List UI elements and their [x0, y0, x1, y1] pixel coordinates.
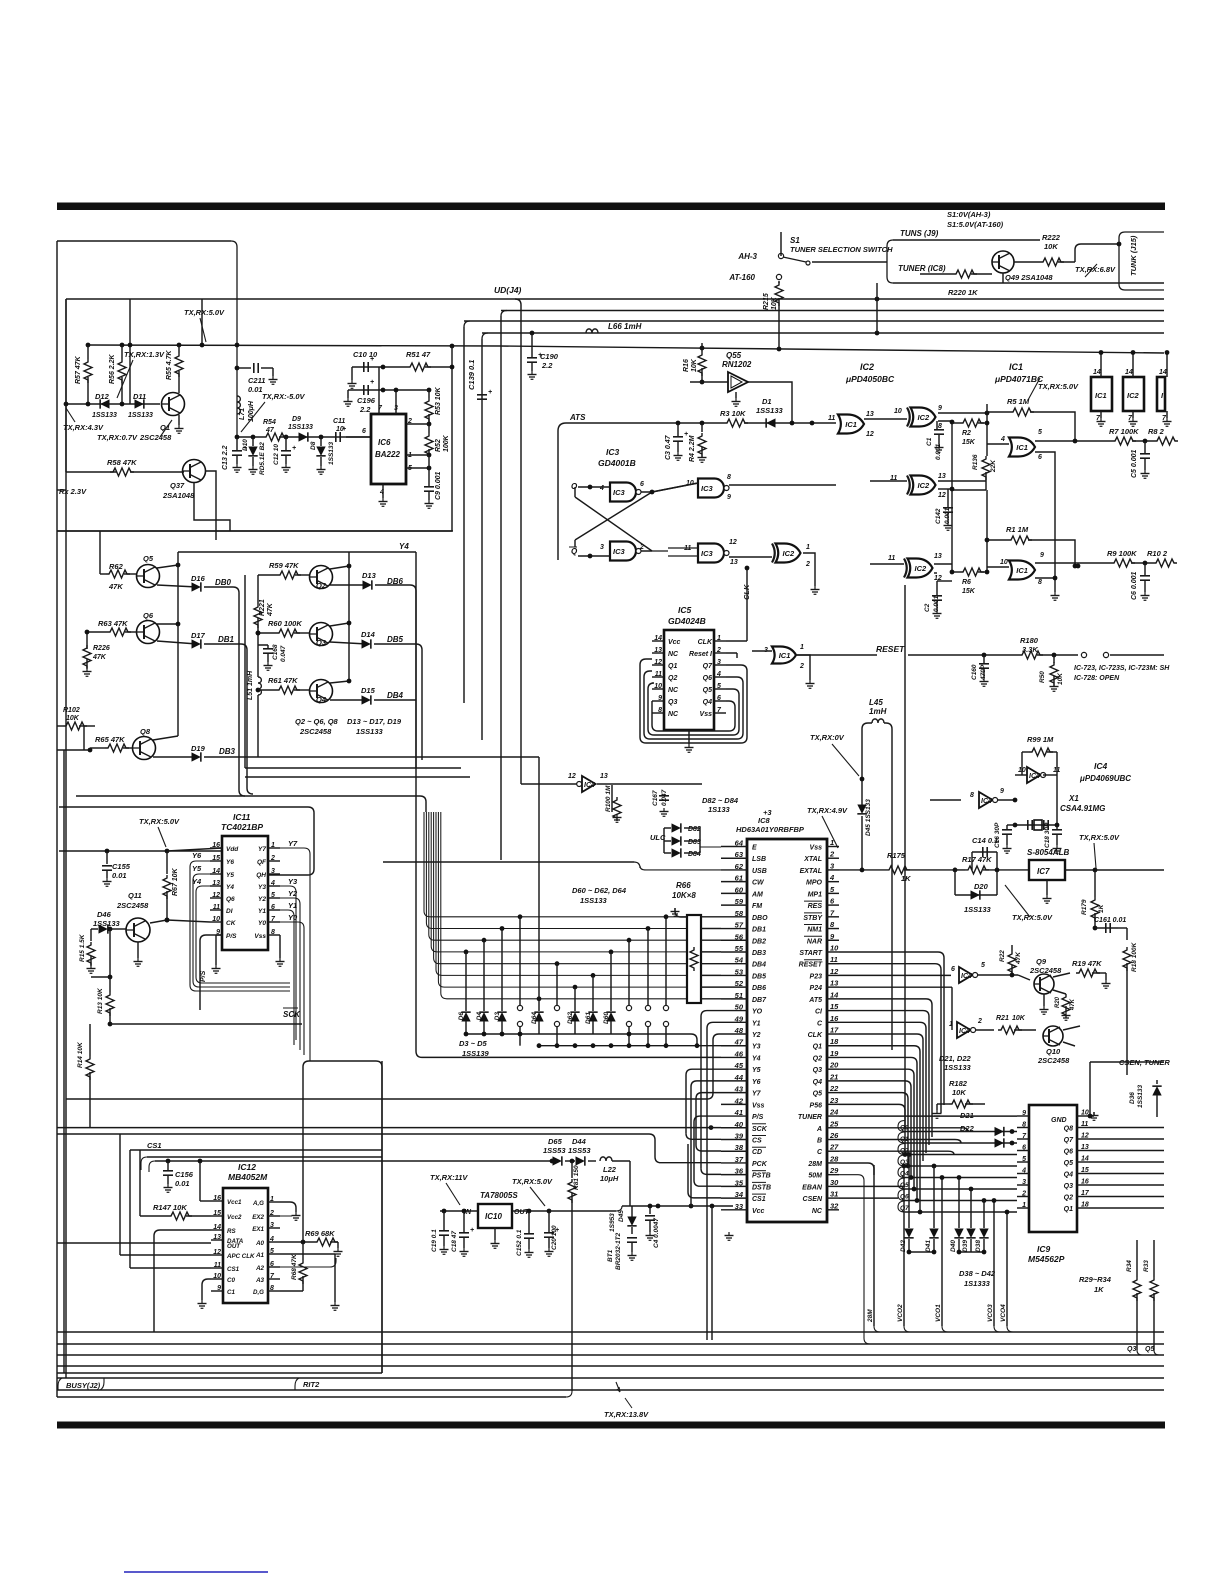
svg-text:Y6: Y6 — [226, 859, 234, 866]
svg-text:Q5: Q5 — [143, 554, 154, 563]
svg-text:49: 49 — [734, 1014, 744, 1023]
svg-text:DB2: DB2 — [752, 938, 766, 945]
svg-text:16: 16 — [830, 1014, 839, 1023]
svg-text:41: 41 — [734, 1108, 743, 1117]
svg-text:Q9: Q9 — [1036, 957, 1047, 966]
svg-text:1SS133: 1SS133 — [964, 905, 992, 914]
svg-text:CSA4.91MG: CSA4.91MG — [1060, 804, 1105, 813]
svg-text:12: 12 — [866, 431, 874, 438]
svg-text:A: A — [816, 1126, 822, 1133]
svg-text:USB: USB — [752, 868, 767, 875]
svg-text:D14: D14 — [361, 630, 376, 639]
svg-text:13: 13 — [730, 559, 738, 566]
svg-text:R180: R180 — [1020, 636, 1039, 645]
svg-text:EX1: EX1 — [252, 1226, 264, 1233]
svg-text:Y2: Y2 — [258, 896, 266, 903]
svg-text:Y1: Y1 — [752, 1020, 761, 1027]
svg-text:DB1: DB1 — [218, 635, 235, 644]
svg-text:5: 5 — [1038, 429, 1042, 436]
svg-text:R13 10K: R13 10K — [97, 987, 104, 1014]
svg-text:10K: 10K — [952, 1088, 966, 1097]
svg-text:15K: 15K — [962, 439, 976, 446]
svg-text:IC2: IC2 — [783, 549, 796, 558]
svg-text:P23: P23 — [810, 973, 823, 980]
svg-text:R1 1M: R1 1M — [1006, 525, 1029, 534]
svg-text:47: 47 — [265, 427, 275, 434]
svg-text:R182: R182 — [949, 1079, 968, 1088]
svg-text:+: + — [370, 379, 374, 386]
svg-text:C12 10: C12 10 — [273, 444, 280, 465]
svg-text:13: 13 — [1081, 1144, 1089, 1151]
svg-text:Reset I: Reset I — [689, 651, 713, 658]
svg-text:0.001: 0.001 — [933, 595, 940, 612]
svg-text:IC2: IC2 — [918, 413, 931, 422]
svg-text:1: 1 — [949, 1021, 953, 1028]
svg-text:A,G: A,G — [252, 1200, 264, 1207]
svg-text:DB4: DB4 — [387, 691, 404, 700]
svg-text:RESET: RESET — [876, 644, 905, 654]
svg-text:IC1: IC1 — [1016, 443, 1028, 452]
svg-text:47K: 47K — [108, 582, 123, 591]
svg-text:R215: R215 — [763, 293, 770, 310]
svg-text:2: 2 — [829, 850, 835, 859]
svg-text:EBAN: EBAN — [802, 1184, 823, 1191]
svg-text:R136: R136 — [972, 454, 979, 470]
svg-text:IC2: IC2 — [1127, 391, 1140, 400]
svg-text:Q3: Q3 — [1064, 1183, 1073, 1190]
svg-text:0.047: 0.047 — [280, 645, 287, 662]
svg-text:TX,RX:0.7V: TX,RX:0.7V — [97, 433, 138, 442]
svg-text:D46: D46 — [97, 910, 112, 919]
svg-text:TX,RX:-5.0V: TX,RX:-5.0V — [262, 392, 306, 401]
svg-text:IC4: IC4 — [1094, 761, 1108, 771]
svg-text:14: 14 — [830, 990, 839, 999]
svg-text:0.001: 0.001 — [935, 443, 942, 460]
svg-text:P24: P24 — [810, 985, 823, 992]
svg-text:CS1: CS1 — [227, 1266, 240, 1273]
svg-text:D8: D8 — [310, 441, 317, 450]
svg-text:R67 10K: R67 10K — [172, 867, 179, 896]
svg-text:Y3: Y3 — [258, 884, 266, 891]
svg-text:D36: D36 — [1129, 1092, 1136, 1104]
svg-text:Q6: Q6 — [1064, 1149, 1073, 1156]
svg-text:Vss: Vss — [752, 1102, 765, 1109]
svg-text:0.047: 0.047 — [661, 789, 668, 806]
svg-text:D64: D64 — [531, 1012, 538, 1024]
svg-text:+: + — [292, 445, 296, 452]
svg-text:Rx 2.3V: Rx 2.3V — [59, 487, 87, 496]
svg-text:Q2: Q2 — [1064, 1195, 1073, 1202]
svg-text:33: 33 — [735, 1202, 744, 1211]
svg-text:RIT2: RIT2 — [303, 1380, 320, 1389]
svg-text:Y4: Y4 — [399, 542, 409, 551]
svg-text:C11: C11 — [333, 418, 345, 425]
svg-text:R19 47K: R19 47K — [1072, 959, 1102, 968]
svg-text:R175: R175 — [887, 851, 906, 860]
svg-text:Vcc: Vcc — [752, 1208, 765, 1215]
svg-text:12: 12 — [1081, 1133, 1089, 1140]
svg-text:1K: 1K — [901, 874, 911, 883]
svg-text:1SS133: 1SS133 — [328, 441, 335, 465]
svg-text:Q11: Q11 — [128, 891, 142, 900]
svg-text:IC5: IC5 — [678, 605, 692, 615]
svg-text:0.01: 0.01 — [175, 1179, 190, 1188]
svg-text:18: 18 — [830, 1037, 839, 1046]
svg-text:BUSY(J2): BUSY(J2) — [66, 1381, 101, 1390]
svg-text:C6 0.001: C6 0.001 — [1131, 571, 1138, 600]
svg-text:Y6: Y6 — [752, 1079, 761, 1086]
svg-text:11: 11 — [830, 955, 838, 964]
svg-text:62: 62 — [735, 862, 744, 871]
svg-text:2.2: 2.2 — [359, 405, 371, 414]
svg-text:1SS133: 1SS133 — [288, 424, 313, 431]
svg-text:D,G: D,G — [253, 1289, 264, 1296]
svg-text:C168: C168 — [272, 644, 279, 660]
svg-text:28: 28 — [829, 1154, 839, 1163]
svg-text:Y7: Y7 — [288, 839, 298, 848]
svg-text:IC3: IC3 — [613, 488, 626, 497]
svg-text:43: 43 — [734, 1085, 744, 1094]
svg-text:Vcc2: Vcc2 — [227, 1214, 242, 1221]
svg-text:Q37: Q37 — [170, 481, 185, 490]
svg-text:R20: R20 — [1055, 996, 1061, 1008]
svg-text:TX,RX:4.9V: TX,RX:4.9V — [807, 806, 848, 815]
svg-text:D3: D3 — [494, 1012, 501, 1021]
svg-text:C10 10: C10 10 — [353, 350, 378, 359]
svg-text:26: 26 — [829, 1131, 839, 1140]
svg-text:R22: R22 — [999, 950, 1006, 962]
svg-text:TA78005S: TA78005S — [480, 1191, 518, 1200]
svg-text:Q4: Q4 — [316, 695, 327, 704]
svg-text:Q8: Q8 — [1064, 1126, 1073, 1133]
svg-text:D13: D13 — [362, 571, 377, 580]
svg-text:Q4: Q4 — [813, 1079, 822, 1086]
svg-text:R52: R52 — [435, 439, 442, 452]
svg-text:15K: 15K — [962, 588, 976, 595]
svg-text:R14 10K: R14 10K — [77, 1041, 84, 1068]
svg-text:47: 47 — [734, 1038, 744, 1047]
svg-text:SCK: SCK — [752, 1126, 768, 1133]
svg-text:IC7: IC7 — [1037, 867, 1050, 876]
svg-text:D17: D17 — [191, 631, 206, 640]
svg-text:R60 100K: R60 100K — [268, 619, 302, 628]
svg-text:Q2 ~ Q6, Q8: Q2 ~ Q6, Q8 — [295, 717, 339, 726]
svg-text:2: 2 — [1021, 1191, 1026, 1198]
svg-text:R5 1M: R5 1M — [1007, 397, 1030, 406]
svg-text:APC CLK: APC CLK — [226, 1253, 255, 1260]
svg-text:TX,RX:1.3V: TX,RX:1.3V — [124, 350, 165, 359]
svg-text:CI: CI — [815, 1009, 823, 1016]
svg-text:C196: C196 — [357, 396, 376, 405]
svg-text:X1: X1 — [1068, 794, 1079, 803]
svg-text:18: 18 — [1081, 1202, 1089, 1209]
svg-text:0.01: 0.01 — [112, 871, 127, 880]
svg-text:μPD4069UBC: μPD4069UBC — [1079, 774, 1131, 783]
svg-text:IC3: IC3 — [701, 484, 714, 493]
svg-text:D16: D16 — [191, 574, 206, 583]
svg-text:RES: RES — [808, 903, 823, 910]
svg-text:Vdd: Vdd — [226, 846, 239, 853]
svg-text:L45: L45 — [869, 698, 883, 707]
svg-text:D83: D83 — [688, 839, 701, 846]
svg-text:C139 0.1: C139 0.1 — [467, 360, 476, 390]
svg-text:13: 13 — [866, 411, 874, 418]
svg-text:55: 55 — [735, 944, 744, 953]
svg-text:RN1202: RN1202 — [722, 360, 752, 369]
svg-text:28M: 28M — [807, 1161, 822, 1168]
svg-text:+: + — [470, 1227, 474, 1234]
svg-text:R55 4.7K: R55 4.7K — [166, 349, 173, 380]
svg-text:8: 8 — [970, 792, 974, 799]
svg-text:1SS133: 1SS133 — [356, 727, 384, 736]
svg-text:Y4: Y4 — [752, 1055, 761, 1062]
svg-text:GD4001B: GD4001B — [598, 458, 636, 468]
svg-text:LSB: LSB — [752, 856, 766, 863]
svg-text:Q55: Q55 — [726, 351, 742, 360]
svg-text:IC1: IC1 — [1009, 362, 1023, 372]
svg-text:NAR: NAR — [807, 938, 822, 945]
svg-text:60: 60 — [735, 885, 744, 894]
svg-text:Q4: Q4 — [703, 699, 712, 706]
svg-text:D45 1SS133: D45 1SS133 — [865, 799, 872, 836]
svg-text:NC: NC — [668, 651, 679, 658]
svg-text:20: 20 — [829, 1061, 839, 1070]
svg-text:C1: C1 — [926, 437, 933, 446]
svg-text:DB6: DB6 — [752, 985, 766, 992]
svg-text:17: 17 — [830, 1026, 839, 1035]
svg-text:VCO2: VCO2 — [897, 1304, 904, 1322]
svg-text:L71: L71 — [239, 408, 246, 420]
svg-text:R33: R33 — [1143, 1260, 1150, 1272]
svg-text:11: 11 — [828, 415, 835, 422]
svg-text:Q6: Q6 — [226, 896, 235, 903]
svg-text:AM: AM — [751, 891, 763, 898]
svg-text:VCO1: VCO1 — [935, 1304, 942, 1322]
svg-text:1SS133: 1SS133 — [944, 1063, 972, 1072]
svg-text:C2: C2 — [924, 603, 931, 612]
svg-text:D40: D40 — [950, 1240, 957, 1252]
svg-text:D20: D20 — [974, 882, 989, 891]
svg-text:63: 63 — [735, 850, 744, 859]
svg-text:D9: D9 — [292, 416, 301, 423]
svg-text:12: 12 — [830, 967, 839, 976]
svg-text:1: 1 — [800, 644, 804, 651]
svg-text:R15 1.5K: R15 1.5K — [79, 933, 86, 962]
svg-text:MP1: MP1 — [808, 891, 823, 898]
svg-text:1SS53: 1SS53 — [543, 1146, 566, 1155]
svg-text:R59 47K: R59 47K — [269, 561, 299, 570]
svg-text:1S953: 1S953 — [609, 1213, 616, 1232]
svg-text:TUNER SELECTION SWITCH: TUNER SELECTION SWITCH — [790, 245, 893, 254]
svg-text:D13 ~ D17, D19: D13 ~ D17, D19 — [347, 717, 402, 726]
svg-text:R7 100K: R7 100K — [1109, 427, 1139, 436]
svg-text:Y5: Y5 — [752, 1067, 761, 1074]
svg-text:10: 10 — [336, 426, 344, 433]
svg-text:R81 150: R81 150 — [573, 1165, 580, 1190]
svg-text:64: 64 — [735, 839, 744, 848]
svg-text:1SS133: 1SS133 — [128, 412, 153, 419]
svg-text:μPD4071BC: μPD4071BC — [994, 374, 1044, 384]
svg-text:TX,RX:4.3V: TX,RX:4.3V — [63, 423, 104, 432]
svg-text:Q5: Q5 — [813, 1091, 822, 1098]
svg-text:D4: D4 — [476, 1012, 483, 1021]
svg-text:R10 2: R10 2 — [1147, 549, 1168, 558]
svg-text:15: 15 — [1081, 1167, 1089, 1174]
svg-text:R29~R34: R29~R34 — [1079, 1275, 1112, 1284]
svg-text:R3 10K: R3 10K — [720, 409, 746, 418]
svg-text:Y0: Y0 — [258, 920, 266, 927]
svg-text:TX,RX:13.8V: TX,RX:13.8V — [604, 1410, 649, 1419]
svg-text:Q3: Q3 — [316, 638, 327, 647]
svg-text:IC3: IC3 — [701, 549, 714, 558]
svg-text:TC4021BP: TC4021BP — [221, 822, 263, 832]
svg-text:IC-723, IC-723S, IC-723M: SH: IC-723, IC-723S, IC-723M: SH — [1074, 665, 1170, 672]
svg-text:C9 0.001: C9 0.001 — [435, 471, 442, 500]
svg-text:6: 6 — [640, 481, 644, 488]
svg-text:IC2: IC2 — [915, 564, 928, 573]
svg-text:C160: C160 — [971, 664, 978, 680]
svg-text:25: 25 — [829, 1119, 839, 1128]
svg-text:16: 16 — [1081, 1179, 1089, 1186]
svg-text:E: E — [752, 845, 757, 852]
svg-text:D60: D60 — [603, 1012, 610, 1024]
svg-text:19: 19 — [830, 1049, 839, 1058]
svg-text:50: 50 — [735, 1003, 744, 1012]
svg-text:VCO3: VCO3 — [987, 1304, 994, 1322]
svg-text:CS1: CS1 — [147, 1141, 162, 1150]
svg-text:VCO4: VCO4 — [1000, 1304, 1007, 1322]
svg-text:SCK: SCK — [283, 1010, 301, 1019]
svg-text:D82 ~ D84: D82 ~ D84 — [702, 796, 739, 805]
svg-text:2: 2 — [805, 561, 810, 568]
svg-text:M54562P: M54562P — [1028, 1254, 1065, 1264]
svg-text:D12: D12 — [95, 392, 110, 401]
svg-text:32: 32 — [830, 1201, 839, 1210]
svg-text:AT5: AT5 — [808, 997, 822, 1004]
svg-text:BA222: BA222 — [375, 450, 400, 459]
svg-text:2SC2458: 2SC2458 — [139, 433, 172, 442]
svg-text:1SS133: 1SS133 — [580, 896, 608, 905]
svg-text:BT1: BT1 — [607, 1249, 614, 1262]
svg-text:14: 14 — [1093, 369, 1101, 376]
svg-text:R51 47: R51 47 — [406, 350, 431, 359]
svg-text:Y5: Y5 — [192, 864, 202, 873]
svg-text:3: 3 — [1022, 1179, 1026, 1186]
svg-text:NM1: NM1 — [807, 927, 822, 934]
svg-text:QF: QF — [257, 859, 267, 866]
svg-text:C0: C0 — [227, 1277, 235, 1284]
svg-text:+: + — [488, 389, 492, 396]
svg-text:Y3: Y3 — [288, 877, 298, 886]
svg-text:46: 46 — [734, 1049, 744, 1058]
svg-text:TX,RX:5.0V: TX,RX:5.0V — [139, 817, 180, 826]
svg-text:1SS133: 1SS133 — [93, 919, 121, 928]
svg-text:TUNER (IC8): TUNER (IC8) — [898, 264, 946, 273]
svg-text:R34: R34 — [1126, 1260, 1133, 1272]
svg-text:D38: D38 — [975, 1240, 982, 1252]
svg-text:OUT: OUT — [227, 1243, 241, 1250]
svg-text:C19 0.1: C19 0.1 — [431, 1229, 438, 1252]
svg-text:R69 68K: R69 68K — [305, 1229, 335, 1238]
svg-text:6: 6 — [362, 428, 366, 435]
svg-text:DB5: DB5 — [752, 973, 766, 980]
svg-text:CK: CK — [226, 920, 237, 927]
svg-text:C152 0.1: C152 0.1 — [516, 1229, 523, 1256]
svg-text:1S133: 1S133 — [708, 805, 731, 814]
svg-text:TX,RX:11V: TX,RX:11V — [430, 1173, 468, 1182]
svg-text:1: 1 — [1022, 1202, 1026, 1209]
svg-text:470P: 470P — [980, 664, 987, 681]
svg-text:C190: C190 — [540, 352, 559, 361]
svg-text:15: 15 — [830, 1002, 839, 1011]
svg-text:31: 31 — [830, 1190, 838, 1199]
svg-text:C211: C211 — [248, 376, 265, 385]
svg-text:TX,RX:5.0V: TX,RX:5.0V — [1012, 913, 1053, 922]
svg-text:IC3: IC3 — [613, 547, 626, 556]
svg-text:53: 53 — [735, 967, 744, 976]
svg-text:QH: QH — [256, 872, 266, 879]
svg-text:12: 12 — [938, 492, 946, 499]
svg-text:TUNER: TUNER — [798, 1114, 822, 1121]
svg-text:R57 47K: R57 47K — [75, 355, 82, 384]
svg-text:+: + — [684, 431, 688, 438]
svg-text:MB4052M: MB4052M — [228, 1172, 268, 1182]
svg-text:AH-3: AH-3 — [737, 252, 757, 261]
svg-text:10K: 10K — [771, 296, 778, 310]
svg-text:9: 9 — [1022, 1110, 1026, 1117]
svg-text:DBO: DBO — [752, 915, 768, 922]
svg-text:TUNK (J15): TUNK (J15) — [1129, 235, 1138, 276]
svg-text:52: 52 — [735, 979, 744, 988]
svg-text:Vcc: Vcc — [668, 639, 681, 646]
svg-text:GND: GND — [1051, 1117, 1067, 1124]
svg-text:4: 4 — [829, 873, 835, 882]
svg-text:A0: A0 — [255, 1240, 264, 1247]
svg-text:9: 9 — [938, 405, 942, 412]
svg-text:24: 24 — [829, 1108, 839, 1117]
svg-text:Y1: Y1 — [258, 908, 266, 915]
svg-text:1: 1 — [830, 838, 834, 847]
svg-text:L51 1mH: L51 1mH — [247, 670, 254, 700]
svg-text:DSTB: DSTB — [752, 1184, 771, 1191]
svg-text:Q1: Q1 — [813, 1044, 822, 1051]
svg-text:IC2: IC2 — [918, 481, 931, 490]
svg-text:D38 ~ D42: D38 ~ D42 — [959, 1269, 996, 1278]
svg-text:NC: NC — [668, 687, 679, 694]
svg-text:Vss: Vss — [810, 845, 823, 852]
svg-text:Y4: Y4 — [226, 884, 234, 891]
svg-text:R6: R6 — [962, 579, 971, 586]
svg-text:47K: 47K — [1070, 998, 1076, 1011]
svg-text:Q10: Q10 — [1046, 1047, 1061, 1056]
svg-text:IC8: IC8 — [758, 816, 771, 825]
svg-text:C167: C167 — [652, 790, 659, 806]
svg-text:DB7: DB7 — [752, 997, 767, 1004]
svg-text:61: 61 — [735, 874, 743, 883]
svg-text:P/S: P/S — [752, 1114, 764, 1121]
svg-text:IC4: IC4 — [959, 1028, 970, 1035]
svg-text:Q3: Q3 — [813, 1067, 822, 1074]
svg-text:9: 9 — [727, 494, 731, 501]
svg-text:6: 6 — [1038, 454, 1042, 461]
svg-text:56: 56 — [735, 932, 744, 941]
svg-text:S1:0V(AH-3): S1:0V(AH-3) — [947, 210, 991, 219]
svg-text:IC1: IC1 — [779, 651, 791, 660]
svg-text:54: 54 — [735, 956, 744, 965]
svg-text:CSEN: CSEN — [803, 1196, 823, 1203]
svg-text:D15: D15 — [361, 686, 376, 695]
svg-text:2.2: 2.2 — [541, 361, 553, 370]
